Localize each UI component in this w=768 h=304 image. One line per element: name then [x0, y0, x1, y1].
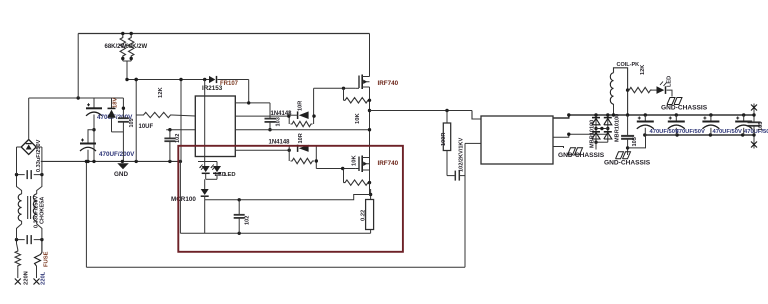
svg-text:GND: GND — [114, 171, 128, 178]
svg-text:10K: 10K — [355, 113, 361, 124]
svg-text:102: 102 — [175, 134, 181, 143]
svg-text:MBR10100: MBR10100 — [590, 120, 596, 148]
svg-text:MBR10100: MBR10100 — [615, 114, 621, 142]
svg-text:220L: 220L — [40, 271, 46, 285]
svg-text:LED: LED — [224, 172, 236, 178]
svg-text:103: 103 — [276, 117, 282, 126]
svg-text:105: 105 — [758, 122, 764, 131]
svg-text:1N4148: 1N4148 — [269, 140, 291, 146]
svg-text:0.22: 0.22 — [361, 210, 367, 221]
svg-text:IRF740: IRF740 — [378, 160, 399, 167]
svg-text:105: 105 — [129, 119, 135, 128]
svg-text:LED: LED — [667, 76, 673, 87]
svg-text:GND-CHASSIS: GND-CHASSIS — [604, 160, 651, 167]
svg-text:68K/2W: 68K/2W — [105, 44, 127, 50]
svg-text:GND-CHASSIS: GND-CHASSIS — [558, 152, 605, 159]
svg-text:FR107: FR107 — [220, 81, 239, 87]
svg-text:10R: 10R — [298, 133, 304, 143]
svg-text:10R: 10R — [298, 101, 304, 111]
svg-text:68K/2W: 68K/2W — [126, 44, 148, 50]
svg-text:12K: 12K — [158, 87, 164, 98]
svg-text:10UF: 10UF — [139, 124, 154, 130]
svg-text:102: 102 — [245, 216, 251, 225]
svg-text:470UF/50V: 470UF/50V — [676, 129, 705, 135]
svg-text:MCR100: MCR100 — [171, 196, 196, 203]
svg-text:10K: 10K — [352, 155, 358, 166]
svg-text:470UF/50V: 470UF/50V — [713, 129, 742, 135]
svg-text:GND-CHASSIS: GND-CHASSIS — [661, 105, 708, 112]
svg-text:220N: 220N — [24, 271, 30, 285]
svg-text:18V: 18V — [113, 98, 119, 108]
svg-text:470UF/50V: 470UF/50V — [744, 129, 768, 135]
svg-text:0.33uF/250V: 0.33uF/250V — [36, 139, 42, 172]
svg-text:COIL-PK: COIL-PK — [617, 62, 640, 68]
svg-text:105: 105 — [632, 137, 638, 146]
svg-text:CHOKE5A: CHOKE5A — [40, 197, 46, 224]
svg-text:IRF740: IRF740 — [378, 80, 399, 87]
svg-text:100R: 100R — [441, 133, 447, 146]
svg-text:12K: 12K — [640, 65, 646, 75]
svg-text:470UF/200V: 470UF/200V — [99, 151, 135, 158]
svg-text:FUSE: FUSE — [44, 251, 50, 267]
svg-text:102/2KV/1KV: 102/2KV/1KV — [459, 138, 465, 172]
